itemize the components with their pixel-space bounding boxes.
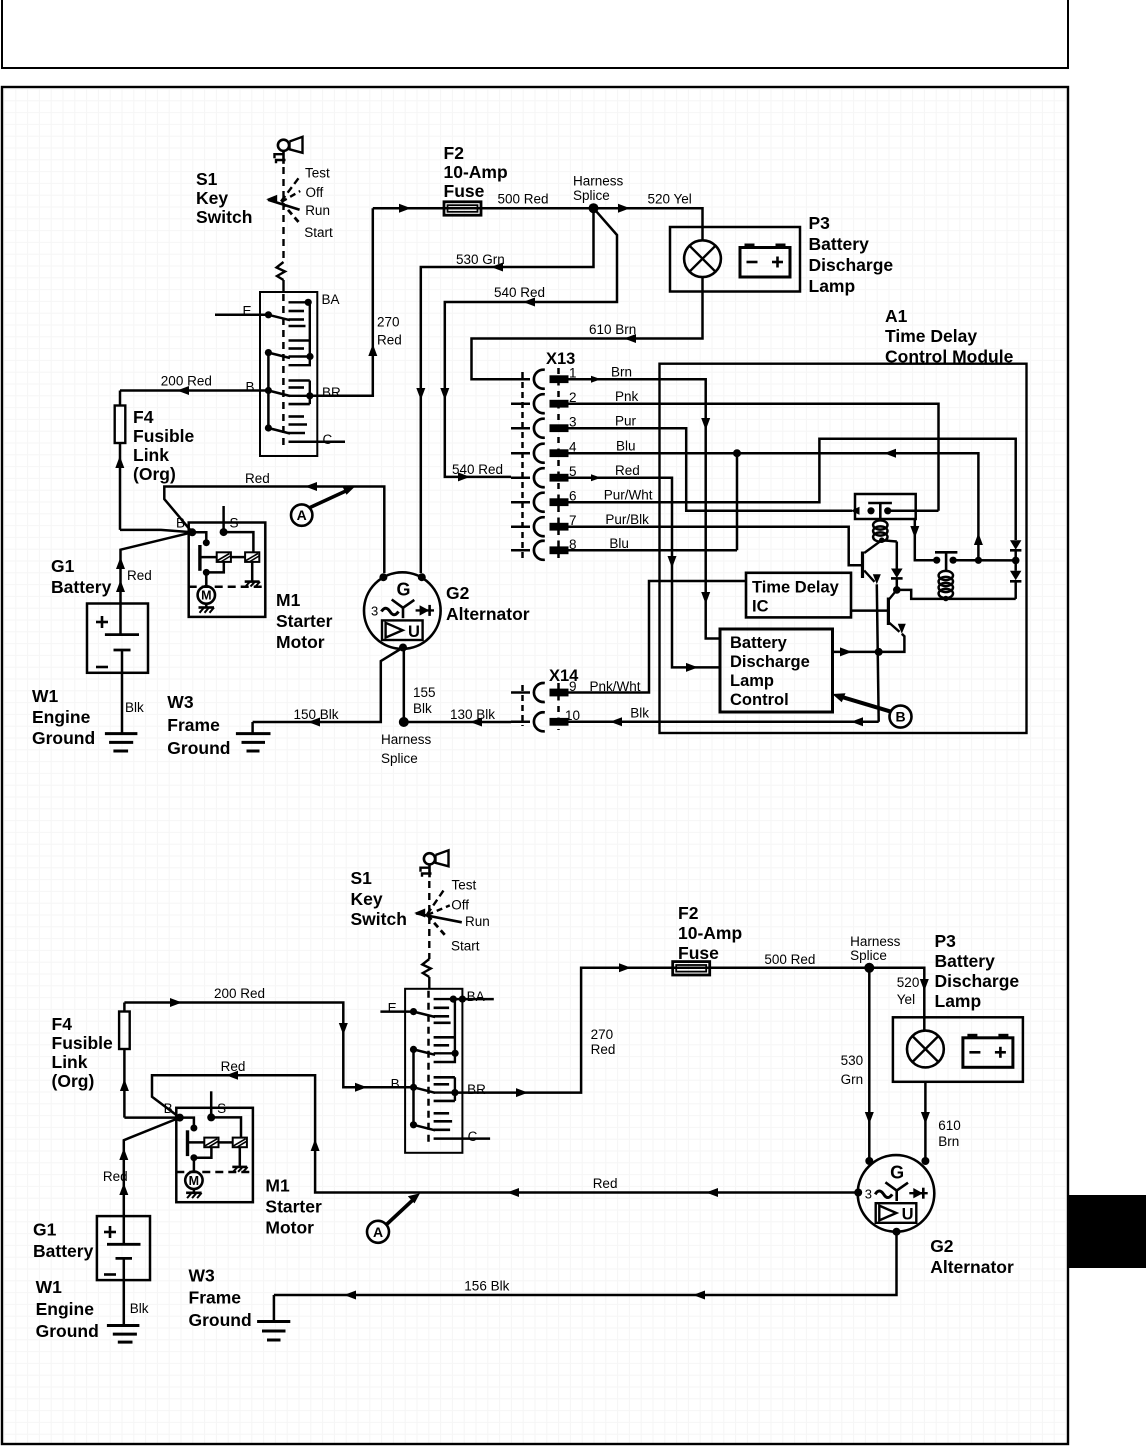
svg-text:Engine: Engine (32, 707, 91, 727)
svg-text:Lamp: Lamp (730, 672, 774, 690)
wire X14 pin10 Blk to Q1 node (569, 721, 879, 724)
svg-text:F2: F2 (678, 903, 699, 923)
svg-text:130 Blk: 130 Blk (450, 707, 495, 722)
svg-text:Control: Control (730, 691, 789, 709)
svg-text:200 Red: 200 Red (214, 986, 265, 1001)
svg-text:Red: Red (103, 1169, 128, 1184)
alternator terminals (bottom) (865, 1157, 873, 1165)
wire F4 to starter B (top) (120, 530, 192, 532)
wire Red alternator to starter (bottom) (152, 1075, 858, 1192)
svg-text:G2: G2 (446, 583, 470, 603)
svg-text:Battery: Battery (730, 634, 788, 652)
svg-text:500 Red: 500 Red (764, 952, 815, 967)
svg-text:270: 270 (377, 315, 400, 330)
wire X13 pin7 Pur/Blk to Q1 base (569, 527, 862, 566)
svg-text:Brn: Brn (938, 1134, 959, 1149)
alternator G2 (bottom) (858, 1155, 935, 1232)
svg-text:Red: Red (593, 1176, 618, 1191)
wire X13 pin6 Pur/Wht to diodes (569, 439, 1016, 540)
svg-text:Frame: Frame (167, 715, 220, 735)
relay K1 coil (873, 520, 887, 529)
svg-text:Brn: Brn (611, 365, 632, 380)
svg-text:P3: P3 (935, 931, 957, 951)
svg-text:Ground: Ground (189, 1310, 252, 1330)
svg-text:F4: F4 (52, 1014, 73, 1034)
svg-text:Blk: Blk (413, 701, 432, 716)
connector X13 dashed body (521, 372, 524, 558)
ground W3 frame ground (top) (251, 722, 254, 734)
svg-text:Discharge: Discharge (730, 653, 810, 671)
connector X14 pin 9 socket (534, 683, 545, 702)
svg-text:Time Delay: Time Delay (752, 579, 840, 597)
svg-text:Red: Red (591, 1042, 616, 1057)
ground W1 engine ground (top) (105, 732, 137, 735)
wire 540 Red splice to X13 pin5 (top) (445, 208, 617, 477)
wire Q1 emitter down to node (877, 584, 879, 722)
svg-text:520: 520 (897, 975, 920, 990)
svg-text:Blu: Blu (616, 439, 636, 454)
connector X13 pin 5 socket (534, 468, 545, 487)
svg-text:610 Brn: 610 Brn (589, 322, 636, 337)
node Q2 collector (893, 586, 901, 594)
battery G1 (bottom) (97, 1216, 150, 1280)
key switch selector positions (bottom) (428, 881, 430, 959)
svg-text:G2: G2 (930, 1236, 954, 1256)
svg-text:Splice: Splice (573, 188, 610, 203)
key switch dashed stem and zigzag (top) (277, 262, 286, 280)
wire X14 pin9 to Time Delay IC (569, 581, 747, 693)
fusible link F4 (bottom) (123, 1003, 126, 1012)
svg-text:Red: Red (377, 333, 402, 348)
svg-text:Red: Red (615, 463, 640, 478)
wire 155 Blk alternator to splice (top) (403, 648, 406, 723)
svg-text:10-Amp: 10-Amp (678, 923, 742, 943)
svg-text:Test: Test (305, 166, 330, 181)
ground W3 frame ground (bottom) (273, 1295, 276, 1322)
connector X13 pin 7 socket (534, 517, 545, 536)
svg-text:W3: W3 (189, 1266, 216, 1286)
svg-text:Test: Test (452, 878, 477, 893)
relay K2 coil (939, 571, 953, 580)
wire 156 Blk alternator to frame ground (bottom) (274, 1232, 897, 1295)
svg-text:Discharge: Discharge (935, 971, 1020, 991)
svg-text:540 Red: 540 Red (452, 462, 503, 477)
wire 130 Blk splice to X14 pin10 (404, 721, 511, 724)
svg-text:Ground: Ground (167, 738, 230, 758)
wire 610 Brn lamp to X13 pin1 (top) (472, 277, 703, 379)
Battery Discharge Lamp Control box (720, 629, 833, 712)
ground W1 engine ground (bottom) (107, 1324, 139, 1327)
svg-text:S1: S1 (196, 169, 218, 189)
svg-text:Switch: Switch (196, 207, 252, 227)
svg-text:Fuse: Fuse (678, 943, 719, 963)
svg-text:Fusible: Fusible (52, 1033, 114, 1053)
diode CR2 (1010, 540, 1021, 549)
connector X14 pin 10 socket (534, 712, 545, 731)
wire Red starter B to alternator (top) (164, 487, 384, 574)
wire E terminal (bottom) (380, 1010, 413, 1013)
svg-text:M1: M1 (265, 1175, 290, 1195)
svg-text:F2: F2 (444, 143, 465, 163)
key switch S1 (bottom) (388, 989, 491, 1153)
svg-text:Blu: Blu (609, 536, 629, 551)
X13 pin1 arrow (591, 376, 601, 383)
svg-text:Battery: Battery (935, 951, 996, 971)
svg-text:Pur: Pur (615, 414, 637, 429)
node diode junction (1012, 557, 1020, 565)
connector X13 pin 1 socket (534, 370, 545, 389)
X13 pin5 arrow (591, 474, 601, 481)
callout circle A (top) (291, 504, 312, 525)
svg-text:610: 610 (938, 1118, 961, 1133)
svg-text:Harness: Harness (573, 174, 624, 189)
connector X13 pin 8 socket (534, 541, 545, 560)
svg-text:530 Grn: 530 Grn (456, 252, 505, 267)
Time Delay IC box (746, 573, 851, 618)
svg-text:Start: Start (451, 939, 480, 954)
wire Time Delay IC to Q2 base (851, 609, 888, 612)
svg-text:A1: A1 (885, 306, 908, 326)
wire F4 to starter B (bottom) (124, 1116, 179, 1119)
connector X14 dashed body (521, 685, 524, 726)
svg-text:Harness: Harness (381, 732, 432, 747)
svg-text:500 Red: 500 Red (498, 192, 549, 207)
svg-text:270: 270 (591, 1027, 614, 1042)
svg-text:S1: S1 (351, 868, 373, 888)
svg-text:150 Blk: 150 Blk (294, 707, 339, 722)
svg-text:Splice: Splice (381, 751, 418, 766)
diode CR1 (882, 540, 897, 541)
svg-text:(Org): (Org) (133, 464, 176, 484)
key switch S1 (top) (243, 292, 346, 456)
svg-text:Grn: Grn (841, 1072, 864, 1087)
svg-text:Motor: Motor (265, 1217, 314, 1237)
fuse F2 (bottom) (673, 962, 710, 975)
wire lamp control to Q1 emitter node (833, 651, 879, 654)
svg-text:IC: IC (752, 598, 769, 616)
svg-text:M1: M1 (276, 590, 301, 610)
svg-text:Pur/Blk: Pur/Blk (605, 512, 649, 527)
svg-text:Ground: Ground (32, 728, 95, 748)
svg-text:520 Yel: 520 Yel (648, 192, 692, 207)
svg-text:W1: W1 (32, 686, 59, 706)
starter motor M1 (bottom) (164, 1091, 253, 1202)
wire 200 Red (top) (120, 389, 268, 392)
wire 150 Blk frame ground to alternator (top) (253, 648, 403, 723)
svg-text:Starter: Starter (276, 611, 333, 631)
node Q1 emitter junction (875, 648, 883, 656)
wire relay K2 right to diode node (953, 559, 1016, 562)
svg-text:Off: Off (451, 898, 469, 913)
svg-text:Discharge: Discharge (809, 255, 894, 275)
wire X13 pin2 Pnk to relay K1 contact (569, 404, 939, 511)
svg-text:Switch: Switch (351, 909, 407, 929)
svg-text:Splice: Splice (850, 948, 887, 963)
callout circle B (890, 706, 912, 728)
svg-text:Ground: Ground (36, 1321, 99, 1341)
wire battery positive Red (top) (121, 532, 193, 603)
svg-text:Off: Off (306, 185, 324, 200)
wire E terminal (top) (215, 314, 268, 317)
svg-text:155: 155 (413, 685, 436, 700)
svg-text:Fuse: Fuse (444, 181, 485, 201)
svg-text:Blk: Blk (130, 1301, 149, 1316)
harness splice node (bottom) (864, 963, 874, 973)
wire X13 pin3 Pur to relay K1 contact left (569, 428, 853, 511)
svg-text:200 Red: 200 Red (161, 374, 212, 389)
alternator G2 (top) (364, 572, 441, 649)
svg-text:Motor: Motor (276, 632, 325, 652)
svg-text:Pnk: Pnk (615, 389, 639, 404)
svg-text:Lamp: Lamp (809, 276, 856, 296)
wire X13 pin8 Blu (569, 549, 738, 552)
wire 610 Brn lamp to alternator (bottom) (924, 1082, 927, 1159)
wire BA terminal (bottom) (453, 998, 494, 1001)
svg-text:Time Delay: Time Delay (885, 326, 977, 346)
svg-text:156 Blk: 156 Blk (464, 1279, 509, 1294)
svg-text:(Org): (Org) (52, 1071, 95, 1091)
svg-text:P3: P3 (809, 213, 831, 233)
relay K1 frame (855, 494, 916, 519)
svg-text:G1: G1 (51, 556, 75, 576)
svg-text:Blk: Blk (630, 705, 649, 720)
key switch selector positions (top) (282, 167, 284, 262)
wire X13 pin4 Blu to relay K2 contact right (569, 453, 979, 560)
alternator terminals (top) (379, 573, 387, 581)
harness splice node lower (top) (399, 717, 409, 727)
svg-text:10-Amp: 10-Amp (444, 162, 508, 182)
svg-text:Blk: Blk (125, 700, 144, 715)
svg-text:B: B (895, 709, 905, 725)
connector X13 pin 3 socket (534, 419, 545, 438)
relay K2 contact (935, 551, 957, 554)
svg-text:Frame: Frame (189, 1288, 242, 1308)
callout circle A (bottom) (367, 1221, 389, 1243)
key switch dashed stem and zigzag (bottom) (422, 959, 431, 977)
svg-text:Start: Start (304, 225, 333, 240)
svg-text:Harness: Harness (850, 934, 901, 949)
svg-text:Pur/Wht: Pur/Wht (604, 488, 653, 503)
svg-text:Key: Key (351, 889, 383, 909)
relay K1 contact (868, 502, 892, 505)
svg-text:Link: Link (52, 1052, 88, 1072)
wire 530 Grn splice to alternator (bottom) (868, 968, 871, 1159)
svg-text:A: A (297, 507, 307, 523)
svg-text:Yel: Yel (897, 992, 915, 1007)
diode CR3 (1014, 560, 1017, 570)
svg-text:W1: W1 (36, 1277, 63, 1297)
wire BR to F2 fuse (bottom) (455, 968, 869, 1093)
wire relay K1 right contact to Pnk riser (888, 510, 939, 513)
key switch icon S1 (bottom) (424, 853, 435, 864)
svg-text:F4: F4 (133, 407, 154, 427)
A1 module box (660, 364, 1027, 733)
svg-text:Battery: Battery (33, 1241, 94, 1261)
connector X13 pin 4 socket (534, 444, 545, 463)
svg-text:Key: Key (196, 188, 228, 208)
wire battery positive Red (bottom) (124, 1118, 180, 1217)
wire 500 Red from 270 riser through fuse to splice (top) (373, 207, 594, 210)
wire Q2 collector to relay K2 coil (897, 590, 1016, 599)
connector X13 pin 6 socket (534, 493, 545, 512)
page top band (2, 0, 1068, 68)
wire relay K1 frame to relay K2 left contact (915, 519, 937, 560)
connector X13 pin 2 socket (534, 394, 545, 413)
svg-text:Red: Red (127, 568, 152, 583)
svg-text:A: A (373, 1224, 383, 1240)
P3 lamp box (top) (670, 227, 800, 292)
wire 530 Grn splice to alternator (top) (421, 208, 594, 573)
svg-text:Red: Red (245, 471, 270, 486)
svg-text:Red: Red (221, 1059, 246, 1074)
svg-text:Engine: Engine (36, 1299, 95, 1319)
svg-text:Starter: Starter (265, 1196, 322, 1216)
key switch icon S1 (top) (278, 140, 289, 151)
black page tab marker (1069, 1195, 1146, 1268)
svg-text:Link: Link (133, 445, 169, 465)
svg-text:540 Red: 540 Red (494, 285, 545, 300)
harness splice node (top) (589, 203, 599, 213)
svg-text:Run: Run (305, 203, 330, 218)
transistor Q2 (889, 590, 897, 600)
svg-text:Run: Run (465, 914, 490, 929)
fusible link F4 (top) (115, 406, 126, 444)
svg-text:Battery: Battery (809, 234, 870, 254)
wire 520 Yel splice to lamp (bottom) (869, 968, 924, 1031)
svg-text:Lamp: Lamp (935, 991, 982, 1011)
svg-text:W3: W3 (167, 692, 194, 712)
starter motor M1 (top) (176, 506, 265, 617)
svg-text:Alternator: Alternator (930, 1257, 1014, 1277)
wire 200 Red (bottom) (124, 1003, 413, 1088)
wire X13 pin1 Brn to lamp control (569, 379, 721, 638)
node pin4/pin8 Blu junction (733, 449, 741, 457)
wire 520 Yel splice to lamp (top) (594, 208, 703, 240)
svg-text:Fusible: Fusible (133, 426, 195, 446)
svg-text:Alternator: Alternator (446, 604, 530, 624)
svg-text:G1: G1 (33, 1220, 57, 1240)
wire 200 Red corner to fusible link (119, 391, 122, 406)
svg-text:Battery: Battery (51, 577, 112, 597)
P3 lamp box (bottom) (893, 1017, 1023, 1082)
transistor Q1 (864, 540, 882, 553)
fuse F2 (top) (444, 202, 481, 215)
wire X13 pin5 Red to lamp control (569, 478, 721, 668)
battery G1 (top) (87, 604, 148, 673)
wire BR to 270 Red riser (top) (310, 208, 373, 396)
svg-text:530: 530 (841, 1053, 864, 1068)
